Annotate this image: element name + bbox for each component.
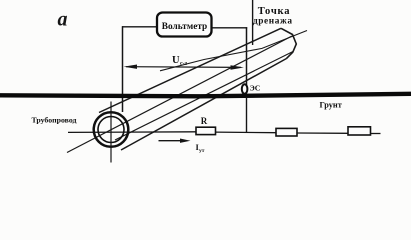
Uc-z measurement arrow [126,66,241,69]
pipe bottom edge [121,59,287,151]
junction vertical wire [246,97,248,133]
electrode ES ellipse [242,84,248,94]
resistor box2 [276,128,297,136]
ground surface line [0,94,411,97]
svg-text:дренажа: дренажа [253,17,293,27]
wire voltmeter left lead [122,26,157,28]
svg-text:с-з: с-з [180,61,188,67]
wire right vertical to electrode [246,27,248,85]
svg-text:Вольтметр: Вольтметр [162,22,207,32]
pipe cross-section outer circle [94,112,129,147]
resistor R [196,127,216,134]
svg-text:R: R [201,116,208,126]
svg-text:ут: ут [199,148,205,154]
pipe far-side top line [160,31,307,71]
pipe inner bottom line [115,52,293,141]
pipe end cap [281,28,296,58]
wire left vertical to pipe [122,26,124,112]
wire voltmeter right lead [211,27,247,29]
pipe cross-section inner circle [98,117,124,143]
svg-text:Грунт: Грунт [320,100,342,109]
crosshair vertical [110,102,112,163]
wire resistor to junction and box2 [216,131,277,134]
wire box2 to box3 [297,132,348,134]
svg-text:Трубопровод: Трубопровод [32,115,77,124]
wire below ground left [68,131,196,134]
svg-text:a: a [58,9,68,31]
wire drainage point vertical [252,0,254,45]
pipe top edge [99,28,281,112]
leakage current arrow [159,140,185,142]
pipe axis line [67,36,292,153]
svg-text:U: U [172,55,180,66]
wire after box3 [371,133,381,135]
svg-text:Точка: Точка [258,6,291,17]
voltmeter U1 box [157,13,212,37]
svg-text:ЭС: ЭС [250,84,261,93]
resistor box3 [348,127,371,135]
